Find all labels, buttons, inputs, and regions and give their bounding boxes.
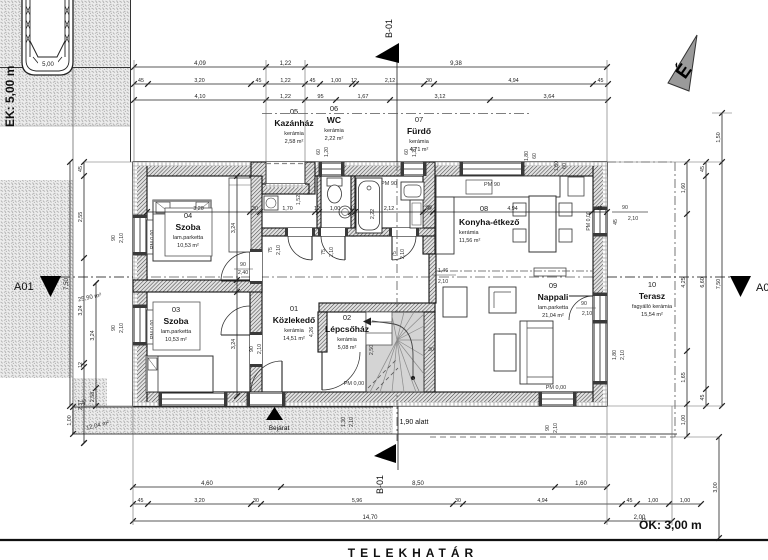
- svg-text:4,26: 4,26: [309, 327, 315, 337]
- svg-text:2,10: 2,10: [620, 350, 626, 360]
- svg-text:3,20: 3,20: [194, 498, 204, 504]
- svg-text:60: 60: [316, 149, 322, 155]
- svg-text:kerámia: kerámia: [284, 131, 305, 137]
- svg-text:1,22: 1,22: [280, 94, 291, 100]
- svg-text:45: 45: [627, 498, 633, 504]
- svg-text:90: 90: [111, 235, 117, 241]
- svg-text:2,10: 2,10: [582, 311, 592, 317]
- svg-text:2,10: 2,10: [400, 249, 406, 259]
- svg-text:90: 90: [111, 325, 117, 331]
- svg-text:2,10: 2,10: [329, 247, 335, 257]
- svg-text:kerámia: kerámia: [409, 139, 430, 145]
- svg-text:Kazánház: Kazánház: [274, 118, 313, 128]
- svg-text:30: 30: [426, 78, 432, 84]
- svg-text:6,60: 6,60: [700, 277, 706, 287]
- svg-text:1,00: 1,00: [330, 206, 340, 212]
- svg-text:3,20: 3,20: [193, 206, 203, 212]
- svg-text:45: 45: [138, 78, 144, 84]
- svg-text:kerámia: kerámia: [337, 337, 358, 343]
- svg-text:2,55: 2,55: [78, 212, 84, 222]
- svg-text:03: 03: [172, 305, 180, 314]
- svg-text:2,22 m²: 2,22 m²: [325, 136, 344, 142]
- svg-text:3,24: 3,24: [78, 305, 84, 315]
- svg-text:Fürdő: Fürdő: [407, 126, 431, 136]
- svg-text:Terasz: Terasz: [639, 291, 665, 301]
- svg-text:60: 60: [532, 153, 538, 159]
- svg-text:1,00: 1,00: [648, 498, 658, 504]
- svg-text:4,10: 4,10: [195, 94, 206, 100]
- svg-text:PM 90: PM 90: [381, 181, 397, 187]
- svg-text:2,10: 2,10: [257, 344, 263, 354]
- svg-text:2,10: 2,10: [119, 323, 125, 333]
- svg-text:2,22: 2,22: [370, 209, 376, 219]
- svg-text:01: 01: [290, 304, 298, 313]
- svg-text:lam.parketta: lam.parketta: [538, 305, 569, 311]
- svg-text:07: 07: [415, 115, 423, 124]
- svg-text:1,46: 1,46: [438, 268, 448, 274]
- svg-text:Bejárat: Bejárat: [269, 425, 290, 432]
- svg-text:4,60: 4,60: [201, 481, 213, 487]
- svg-text:7,50: 7,50: [64, 278, 70, 290]
- svg-text:15,54 m²: 15,54 m²: [641, 312, 663, 318]
- svg-text:05: 05: [290, 107, 298, 116]
- svg-text:30: 30: [428, 347, 434, 353]
- svg-text:60: 60: [404, 149, 410, 155]
- svg-text:WC: WC: [327, 115, 341, 125]
- svg-text:kerámia: kerámia: [324, 128, 345, 134]
- svg-text:45: 45: [256, 78, 262, 84]
- svg-text:09: 09: [549, 281, 557, 290]
- svg-text:45: 45: [613, 219, 619, 225]
- svg-text:45: 45: [597, 206, 603, 212]
- svg-text:PM 0,00: PM 0,00: [546, 385, 566, 391]
- svg-text:TELEKHATÁR: TELEKHATÁR: [348, 545, 478, 560]
- svg-text:45: 45: [82, 399, 88, 405]
- svg-text:90: 90: [581, 301, 587, 307]
- svg-text:75: 75: [321, 249, 327, 255]
- svg-text:12: 12: [350, 206, 356, 212]
- svg-text:10,53 m²: 10,53 m²: [165, 337, 187, 343]
- svg-text:95: 95: [317, 94, 323, 100]
- svg-text:75: 75: [392, 251, 398, 257]
- svg-text:11,56 m²: 11,56 m²: [459, 238, 480, 244]
- svg-text:1,30: 1,30: [341, 417, 347, 427]
- svg-text:75: 75: [268, 247, 274, 253]
- svg-text:1,80: 1,80: [612, 350, 618, 360]
- svg-text:B-01: B-01: [384, 19, 394, 38]
- svg-text:45: 45: [598, 78, 604, 84]
- svg-text:2,58: 2,58: [90, 392, 96, 402]
- svg-text:lam.parketta: lam.parketta: [173, 235, 204, 241]
- svg-text:4,25: 4,25: [681, 277, 687, 287]
- svg-text:fagyálló kerámia: fagyálló kerámia: [632, 304, 673, 310]
- svg-text:Szoba: Szoba: [163, 316, 188, 326]
- svg-text:45: 45: [310, 78, 316, 84]
- svg-text:Szoba: Szoba: [175, 222, 200, 232]
- svg-text:1,80: 1,80: [554, 161, 560, 171]
- svg-text:4,09: 4,09: [194, 61, 206, 67]
- svg-text:1,22: 1,22: [280, 78, 290, 84]
- svg-text:3,12: 3,12: [435, 94, 446, 100]
- svg-text:A0: A0: [756, 282, 768, 294]
- svg-text:3,24: 3,24: [231, 339, 237, 349]
- svg-text:4,94: 4,94: [537, 498, 547, 504]
- svg-text:4,94: 4,94: [507, 206, 517, 212]
- svg-text:Nappali: Nappali: [538, 292, 569, 302]
- svg-text:90: 90: [240, 262, 246, 268]
- svg-text:2,12: 2,12: [385, 78, 395, 84]
- svg-text:5,96: 5,96: [352, 498, 362, 504]
- svg-text:Lépcsőház: Lépcsőház: [325, 324, 369, 334]
- svg-text:45: 45: [700, 395, 706, 401]
- svg-text:45: 45: [138, 498, 144, 504]
- svg-text:1,00: 1,00: [331, 78, 341, 84]
- svg-text:1,67: 1,67: [358, 94, 369, 100]
- svg-text:2,10: 2,10: [349, 417, 355, 427]
- svg-text:10,53 m²: 10,53 m²: [177, 243, 199, 249]
- svg-text:5,08 m²: 5,08 m²: [338, 345, 357, 351]
- svg-text:1,00: 1,00: [680, 498, 690, 504]
- svg-text:PM 90: PM 90: [484, 182, 500, 188]
- svg-text:30: 30: [253, 498, 259, 504]
- svg-text:1,65: 1,65: [681, 372, 687, 382]
- svg-text:02: 02: [343, 313, 351, 322]
- svg-text:30: 30: [252, 206, 258, 212]
- svg-text:3,24: 3,24: [231, 223, 237, 233]
- svg-text:60: 60: [562, 163, 568, 169]
- svg-text:1,80: 1,80: [524, 151, 530, 161]
- svg-text:EK: 5,00 m: EK: 5,00 m: [3, 66, 17, 127]
- svg-text:kerámia: kerámia: [459, 230, 480, 236]
- svg-text:7,50: 7,50: [716, 279, 722, 289]
- svg-text:30: 30: [455, 498, 461, 504]
- svg-text:1,70: 1,70: [282, 206, 292, 212]
- svg-text:12: 12: [351, 78, 357, 84]
- svg-text:3,64: 3,64: [544, 94, 555, 100]
- svg-text:1,50: 1,50: [716, 132, 722, 142]
- svg-text:1,20: 1,20: [324, 147, 330, 157]
- svg-text:3,00: 3,00: [713, 482, 719, 492]
- svg-text:ÖK: 3,00 m: ÖK: 3,00 m: [639, 517, 702, 532]
- svg-text:12: 12: [78, 362, 84, 368]
- svg-text:14,70: 14,70: [362, 515, 378, 521]
- svg-text:10: 10: [648, 280, 656, 289]
- svg-text:2,10: 2,10: [628, 216, 638, 222]
- svg-text:14,51 m²: 14,51 m²: [283, 336, 305, 342]
- svg-text:PM 0,00: PM 0,00: [344, 381, 364, 387]
- svg-text:1,60: 1,60: [575, 481, 587, 487]
- svg-text:3,24: 3,24: [90, 330, 96, 340]
- svg-text:2,10: 2,10: [119, 233, 125, 243]
- svg-text:9,38: 9,38: [450, 61, 462, 67]
- svg-text:45: 45: [700, 166, 706, 172]
- svg-text:Konyha-étkező: Konyha-étkező: [459, 217, 519, 227]
- svg-text:2,40: 2,40: [238, 270, 248, 276]
- svg-text:1,00: 1,00: [681, 415, 687, 425]
- svg-text:1,20: 1,20: [412, 147, 418, 157]
- svg-text:8,50: 8,50: [412, 481, 424, 487]
- svg-text:1,90 alatt: 1,90 alatt: [400, 419, 429, 426]
- svg-text:30: 30: [426, 205, 432, 211]
- svg-text:2,58 m²: 2,58 m²: [285, 139, 304, 145]
- svg-text:90: 90: [249, 346, 255, 352]
- svg-text:4,94: 4,94: [508, 78, 518, 84]
- svg-text:lam.parketta: lam.parketta: [161, 329, 192, 335]
- svg-text:2,50: 2,50: [369, 345, 375, 355]
- svg-text:45: 45: [78, 166, 84, 172]
- svg-text:1,22: 1,22: [280, 61, 292, 67]
- svg-text:90: 90: [622, 205, 628, 211]
- svg-text:2,10: 2,10: [553, 423, 559, 433]
- svg-text:1,52: 1,52: [296, 195, 302, 205]
- svg-text:2,10: 2,10: [276, 245, 282, 255]
- svg-text:06: 06: [330, 104, 338, 113]
- svg-text:12: 12: [314, 206, 320, 212]
- svg-text:21,04 m²: 21,04 m²: [542, 313, 564, 319]
- svg-text:2,10: 2,10: [438, 279, 448, 285]
- svg-text:2,12: 2,12: [384, 206, 394, 212]
- svg-text:5,00: 5,00: [42, 62, 54, 68]
- svg-text:1,00: 1,00: [67, 415, 73, 425]
- svg-text:kerámia: kerámia: [284, 328, 305, 334]
- svg-text:90: 90: [545, 425, 551, 431]
- svg-text:3,20: 3,20: [194, 78, 204, 84]
- svg-text:1,60: 1,60: [681, 183, 687, 193]
- svg-text:B-01: B-01: [375, 475, 385, 494]
- svg-text:A01: A01: [14, 281, 34, 293]
- svg-text:Közlekedő: Közlekedő: [273, 315, 316, 325]
